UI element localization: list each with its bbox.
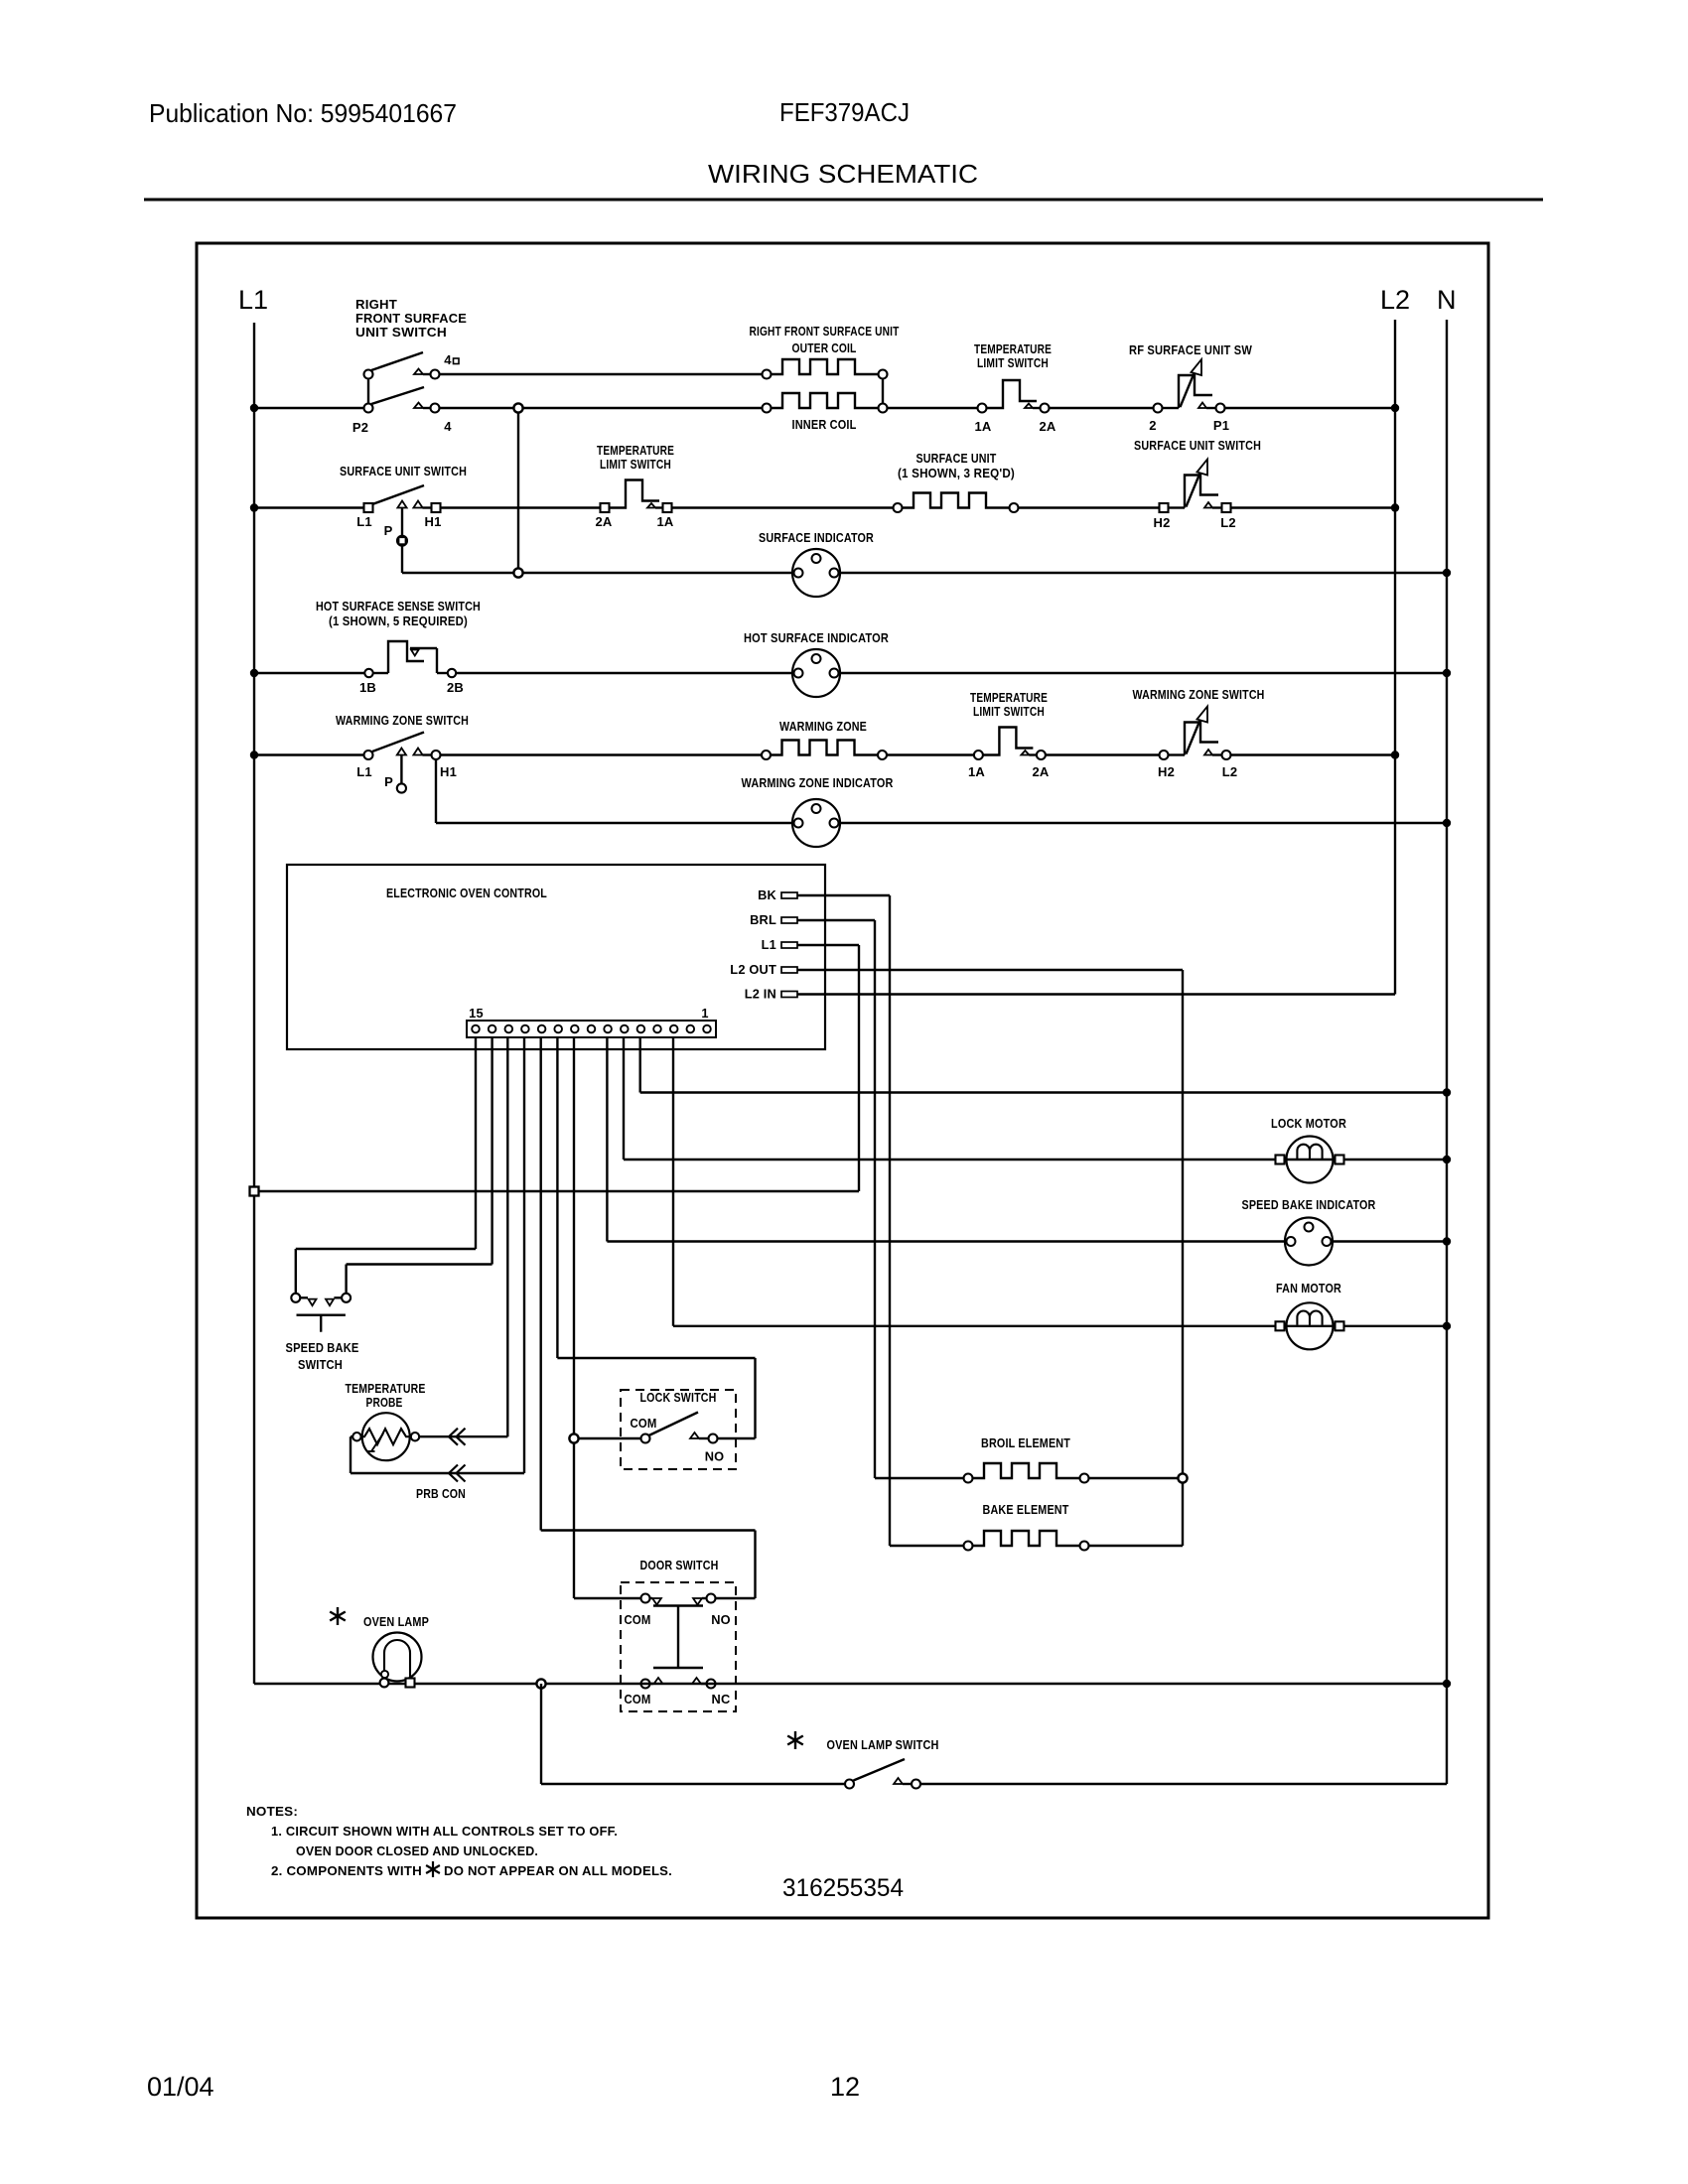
svg-text:WARMING ZONE: WARMING ZONE: [779, 719, 867, 734]
label NO lock: [705, 1449, 725, 1464]
label NO door upper: [711, 1612, 731, 1627]
element inner coil: [763, 393, 888, 413]
wire pin3 to fan motor: [673, 1037, 1276, 1326]
label 2B: [447, 680, 464, 695]
svg-text:1A: 1A: [974, 419, 991, 434]
svg-text:H1: H1: [440, 764, 457, 779]
switch door lower (COM/NC): [641, 1678, 716, 1689]
label warming zone indicator: [742, 775, 894, 790]
wire row-C H1 to 2A: [441, 506, 601, 508]
box door switch (dashed): [621, 1582, 736, 1711]
switch surface unit (L1/P/H1): [364, 485, 441, 546]
wire L1 bus: [253, 323, 255, 1684]
label inner coil: [792, 417, 857, 432]
svg-text:RF SURFACE UNIT SW: RF SURFACE UNIT SW: [1129, 342, 1253, 357]
EOC pin connector strip: [467, 1021, 716, 1037]
svg-text:L2 IN: L2 IN: [745, 987, 776, 1002]
svg-text:(1 SHOWN, 3 REQ'D): (1 SHOWN, 3 REQ'D): [898, 466, 1015, 480]
door switch plunger: [653, 1606, 703, 1669]
label 1B: [359, 680, 376, 695]
wire lock motor to N: [1343, 1159, 1447, 1160]
label 4: [444, 419, 452, 434]
element broil: [964, 1463, 1089, 1483]
label surface indicator: [759, 530, 874, 545]
junction dot N pin5 wire: [1443, 1088, 1451, 1096]
wire EOC L1 net: [797, 945, 859, 1191]
wire row-C L1 to switch: [254, 506, 364, 508]
schematic border frame: [197, 243, 1488, 1918]
wire row-B inner coil to 1A: [888, 407, 978, 409]
svg-text:SPEED BAKE: SPEED BAKE: [286, 1340, 359, 1355]
wire N bus: [1446, 320, 1448, 1784]
svg-text:L2: L2: [1380, 285, 1410, 315]
switch temperature limit (1A/2A) row-F: [974, 728, 1046, 760]
svg-text:L1: L1: [762, 937, 776, 952]
svg-text:P: P: [384, 523, 393, 538]
wire pin13 to temperature probe: [419, 1037, 507, 1436]
svg-text:L2: L2: [1222, 764, 1238, 779]
wire pin12 to probe return: [351, 1037, 524, 1473]
svg-text:DO NOT APPEAR ON ALL MODELS.: DO NOT APPEAR ON ALL MODELS.: [444, 1863, 672, 1878]
wire row-E indicator to N: [838, 672, 1447, 674]
svg-text:15: 15: [469, 1006, 484, 1021]
junction dot N row-G: [1443, 819, 1451, 827]
svg-text:2: 2: [1149, 418, 1156, 433]
label temperature limit switch row-C: [597, 443, 674, 472]
wire BK to bake element: [890, 1545, 964, 1547]
svg-text:1: 1: [701, 1006, 708, 1021]
svg-text:L1: L1: [238, 285, 268, 315]
lamp warming zone indicator: [792, 799, 840, 847]
wire BK net: [797, 895, 890, 1546]
svg-text:4: 4: [444, 419, 452, 434]
svg-text:OVEN DOOR CLOSED AND UNLOCKED.: OVEN DOOR CLOSED AND UNLOCKED.: [296, 1843, 538, 1858]
svg-text:2A: 2A: [1032, 764, 1049, 779]
svg-text:WARMING ZONE SWITCH: WARMING ZONE SWITCH: [1133, 687, 1265, 702]
wire row-C coil to H2: [1019, 506, 1160, 508]
svg-text:COM: COM: [631, 1416, 657, 1431]
label right front surface unit switch: [355, 297, 467, 340]
note 1 line 2: [296, 1843, 538, 1858]
svg-text:NC: NC: [712, 1692, 731, 1706]
wire row-E L1 to 1B: [254, 672, 365, 674]
svg-text:(1 SHOWN, 5 REQUIRED): (1 SHOWN, 5 REQUIRED): [329, 614, 468, 628]
label 1A row-F: [968, 764, 985, 779]
label RF surface unit SW: [1129, 342, 1253, 357]
switch temperature limit (1A/2A) row-B: [978, 380, 1050, 413]
junction oven lamp switch drop: [536, 1679, 545, 1688]
svg-text:316255354: 316255354: [782, 1874, 904, 1902]
lamp speed bake indicator: [1285, 1218, 1333, 1266]
wire row-D indicator to N: [838, 572, 1447, 574]
wire row-F L2 to L2 bus: [1231, 753, 1396, 755]
svg-text:WIRING SCHEMATIC: WIRING SCHEMATIC: [708, 159, 978, 189]
wire row-F L1 to switch: [254, 753, 364, 755]
element surface unit coil: [894, 493, 1019, 513]
svg-text:P2: P2: [352, 420, 368, 435]
svg-text:TEMPERATURE: TEMPERATURE: [970, 690, 1048, 705]
label lock motor: [1271, 1116, 1346, 1131]
svg-text:P: P: [384, 774, 393, 789]
junction dot N oven lamp row: [1443, 1680, 1451, 1688]
svg-text:NOTES:: NOTES:: [246, 1804, 298, 1819]
svg-text:SPEED BAKE INDICATOR: SPEED BAKE INDICATOR: [1242, 1197, 1376, 1212]
wire row-B L1 to P2: [254, 407, 364, 409]
label L1 row-F: [356, 764, 372, 779]
svg-text:ELECTRONIC OVEN CONTROL: ELECTRONIC OVEN CONTROL: [386, 886, 547, 900]
wire pin7 to speed bake indicator: [607, 1037, 1287, 1242]
label COM lock: [631, 1416, 657, 1431]
label 4a: [444, 352, 459, 367]
label P row-F: [384, 774, 393, 789]
junction dot L2 row-F: [1391, 751, 1399, 758]
label 2: [1149, 418, 1156, 433]
label oven lamp: [363, 1614, 429, 1629]
label lock switch: [640, 1390, 717, 1405]
lamp surface indicator: [792, 549, 840, 597]
node L2 label: [1380, 285, 1410, 315]
wire row-C L2 to L2 bus: [1231, 506, 1396, 508]
label hot surface indicator: [744, 630, 889, 645]
element bake: [964, 1531, 1089, 1551]
svg-text:COM: COM: [625, 1612, 651, 1627]
connector PRB CON upper chevrons: [449, 1429, 466, 1445]
svg-text:1A: 1A: [656, 514, 673, 529]
terminal L2 IN: [745, 987, 797, 1002]
node N label: [1437, 285, 1457, 315]
wire drop row-B to row-D: [517, 408, 519, 573]
svg-text:N: N: [1437, 285, 1457, 315]
label bake element: [983, 1502, 1069, 1517]
svg-text:SURFACE UNIT SWITCH: SURFACE UNIT SWITCH: [340, 464, 467, 478]
svg-text:2. COMPONENTS WITH: 2. COMPONENTS WITH: [271, 1863, 422, 1878]
svg-text:H1: H1: [424, 514, 441, 529]
label PRB CON: [416, 1486, 466, 1501]
terminal BRL: [750, 912, 797, 927]
text: model number: [779, 97, 910, 127]
wire pin11 to door switch NO: [541, 1037, 756, 1598]
svg-text:Publication No: 5995401667: Publication No: 5995401667: [149, 98, 457, 128]
wire speed bake indicator to N: [1331, 1240, 1447, 1242]
junction broil L2OUT: [1178, 1473, 1187, 1482]
svg-text:NO: NO: [705, 1449, 725, 1464]
wire coil right terminals link: [882, 379, 884, 404]
svg-text:TEMPERATURE: TEMPERATURE: [597, 443, 674, 458]
label pin 15: [469, 1006, 484, 1021]
junction L1 x1200: [250, 1187, 259, 1196]
svg-text:NO: NO: [711, 1612, 731, 1627]
svg-text:OVEN LAMP: OVEN LAMP: [363, 1614, 429, 1629]
label P1: [1213, 418, 1229, 433]
switch warming zone right (H2/L2): [1160, 707, 1231, 760]
terminal L2 OUT: [730, 962, 797, 977]
note 2: [271, 1863, 672, 1878]
label surface unit switch left: [340, 464, 467, 478]
element outer coil: [763, 359, 888, 379]
switch hot surface sense (1B/2B): [364, 641, 456, 677]
junction dot L2 row-B: [1391, 404, 1399, 412]
svg-text:P1: P1: [1213, 418, 1229, 433]
wire L1 bus to EOC L1: [254, 1190, 859, 1192]
label H1 row-F: [440, 764, 457, 779]
wire pin15 to speed bake switch: [296, 1037, 476, 1294]
label speed bake switch: [286, 1340, 359, 1372]
label 2A row-B: [1039, 419, 1055, 434]
svg-text:LIMIT SWITCH: LIMIT SWITCH: [973, 704, 1045, 719]
resistor temperature probe: [352, 1413, 419, 1460]
label warming zone switch right: [1133, 687, 1265, 702]
svg-text:H2: H2: [1153, 515, 1170, 530]
junction dot N fan motor: [1443, 1322, 1451, 1330]
svg-text:2A: 2A: [1039, 419, 1055, 434]
terminal BK: [758, 887, 797, 902]
asterisk oven lamp: [330, 1607, 346, 1625]
switch door upper (COM/NO): [641, 1594, 716, 1605]
switch speed bake: [291, 1294, 351, 1332]
svg-text:L1: L1: [356, 514, 372, 529]
text: title WIRING SCHEMATIC: [708, 159, 978, 189]
switch warming zone (L1/P/H1): [364, 733, 441, 793]
svg-text:DOOR SWITCH: DOOR SWITCH: [640, 1558, 719, 1572]
wire row-B P1 to L2 bus: [1225, 407, 1396, 409]
wire probe left drop: [351, 1436, 352, 1473]
text part number 316255354: [782, 1874, 904, 1902]
svg-text:TEMPERATURE: TEMPERATURE: [974, 341, 1052, 356]
label L2 row-F: [1222, 764, 1238, 779]
label warming zone element: [779, 719, 867, 734]
label surface unit: [898, 451, 1015, 480]
label door switch: [640, 1558, 719, 1572]
junction dot N lock motor: [1443, 1156, 1451, 1163]
wire P drop to indicator row: [402, 546, 794, 574]
label temperature limit switch row-F: [970, 690, 1048, 719]
label broil element: [981, 1435, 1070, 1450]
wire pin6 to lock motor: [624, 1037, 1276, 1160]
svg-text:BROIL ELEMENT: BROIL ELEMENT: [981, 1435, 1070, 1450]
label pin 1: [701, 1006, 708, 1021]
svg-text:RIGHT: RIGHT: [355, 297, 397, 312]
wire BRL to broil element: [875, 1477, 964, 1479]
motor lock motor: [1276, 1137, 1344, 1183]
wire pin5 to N: [640, 1037, 1447, 1093]
svg-text:LIMIT SWITCH: LIMIT SWITCH: [977, 355, 1049, 370]
svg-text:BK: BK: [758, 887, 776, 902]
label fan motor: [1276, 1281, 1341, 1296]
wire row-B contact 4 to inner coil: [440, 407, 763, 409]
text page 12: [830, 2072, 860, 2102]
svg-text:UNIT SWITCH: UNIT SWITCH: [355, 325, 447, 340]
svg-text:LOCK SWITCH: LOCK SWITCH: [640, 1390, 717, 1405]
svg-text:BRL: BRL: [750, 912, 776, 927]
svg-text:LOCK MOTOR: LOCK MOTOR: [1271, 1116, 1346, 1131]
switch lock (COM/NO): [641, 1413, 718, 1443]
label 2A row-C: [595, 514, 612, 529]
label outer coil: [792, 341, 857, 355]
junction dot N row-E: [1443, 669, 1451, 677]
svg-text:SWITCH: SWITCH: [298, 1357, 343, 1372]
svg-text:WARMING ZONE SWITCH: WARMING ZONE SWITCH: [336, 713, 469, 728]
switch RF surface unit (2/P1): [1154, 359, 1225, 413]
svg-text:INNER COIL: INNER COIL: [792, 417, 857, 432]
label P2: [352, 420, 368, 435]
wire row-F coil to 1A: [887, 753, 973, 755]
wire L2 bus: [1394, 320, 1396, 995]
text date 01/04: [147, 2072, 214, 2102]
wire pin10 to lock switch NO: [557, 1037, 755, 1438]
junction dot L1 row-F: [250, 751, 258, 758]
label 2A row-F: [1032, 764, 1049, 779]
label right front surface unit: [750, 324, 900, 339]
label P row-C: [384, 523, 393, 538]
wire pin9 to lock switch COM: [574, 1437, 640, 1439]
svg-text:PRB CON: PRB CON: [416, 1486, 466, 1501]
svg-text:1. CIRCUIT SHOWN WITH ALL CO: 1. CIRCUIT SHOWN WITH ALL CONTROLS SET T…: [271, 1824, 618, 1839]
label temperature probe: [346, 1381, 426, 1410]
terminal L1: [762, 937, 797, 952]
junction dot L2 row-C: [1391, 503, 1399, 511]
box lock switch (dashed): [621, 1390, 736, 1469]
svg-text:2A: 2A: [595, 514, 612, 529]
lamp hot surface indicator: [792, 649, 840, 697]
junction dot N speed bake indicator: [1443, 1237, 1451, 1245]
label H2 row-F: [1158, 764, 1175, 779]
svg-text:LIMIT SWITCH: LIMIT SWITCH: [600, 457, 671, 472]
wire row-F 2A to H2: [1046, 753, 1160, 755]
wire broil element to L2OUT net: [1089, 1477, 1184, 1479]
svg-text:4: 4: [444, 352, 452, 367]
wire oven lamp switch to N: [920, 1783, 1447, 1785]
svg-text:H2: H2: [1158, 764, 1175, 779]
asterisk oven lamp switch: [787, 1731, 803, 1749]
switch surface unit right (H2/L2): [1160, 460, 1231, 513]
svg-text:L1: L1: [356, 764, 372, 779]
svg-text:FAN MOTOR: FAN MOTOR: [1276, 1281, 1341, 1296]
switch temperature limit (2A/1A) row-C: [601, 480, 672, 513]
svg-text:RIGHT FRONT SURFACE UNIT: RIGHT FRONT SURFACE UNIT: [750, 324, 900, 339]
wire oven lamp row: [254, 1683, 1447, 1685]
wire pin14 to speed bake switch: [347, 1037, 492, 1294]
asterisk note 2: [426, 1861, 440, 1877]
label 1A row-C: [656, 514, 673, 529]
svg-text:HOT SURFACE SENSE SWITCH: HOT SURFACE SENSE SWITCH: [316, 599, 481, 614]
svg-text:FRONT SURFACE: FRONT SURFACE: [355, 311, 467, 326]
junction dot L1 row-B: [250, 404, 258, 412]
svg-text:L2: L2: [1220, 515, 1236, 530]
label electronic oven control: [386, 886, 547, 900]
wire BRL net: [797, 920, 875, 1478]
wire bake element to L2OUT net: [1089, 1545, 1184, 1547]
label speed bake indicator: [1242, 1197, 1376, 1212]
svg-text:1A: 1A: [968, 764, 985, 779]
label L2 row-C: [1220, 515, 1236, 530]
label H1 row-C: [424, 514, 441, 529]
svg-text:TEMPERATURE: TEMPERATURE: [346, 1381, 426, 1396]
label COM door lower: [625, 1692, 651, 1706]
wire row-G indicator to N: [838, 822, 1447, 824]
wire lock NO to pin10 riser: [718, 1437, 756, 1439]
wire oven lamp switch feed: [541, 1684, 845, 1784]
wire H1 drop to row-G: [436, 759, 794, 824]
svg-text:FEF379ACJ: FEF379ACJ: [779, 97, 910, 127]
wire row-C 1A to surface unit: [672, 506, 894, 508]
junction dot L1 row-E: [250, 669, 258, 677]
wire row-F H1 to warming zone: [441, 753, 763, 755]
svg-text:OUTER COIL: OUTER COIL: [792, 341, 857, 355]
svg-text:WARMING ZONE INDICATOR: WARMING ZONE INDICATOR: [742, 775, 894, 790]
label H2 row-C: [1153, 515, 1170, 530]
svg-text:SURFACE UNIT: SURFACE UNIT: [916, 451, 997, 466]
svg-text:12: 12: [830, 2072, 860, 2102]
label NOTES: [246, 1804, 298, 1819]
wire L2 IN net: [797, 993, 1395, 995]
motor fan motor: [1276, 1302, 1344, 1349]
text: publication number: [149, 98, 457, 128]
wire fan motor to N: [1343, 1325, 1447, 1327]
box electronic oven control: [287, 865, 825, 1049]
node L1 label: [238, 285, 268, 315]
wire row-E 2B to indicator: [456, 672, 794, 674]
label COM door upper: [625, 1612, 651, 1627]
svg-text:2B: 2B: [447, 680, 464, 695]
switch oven lamp: [845, 1759, 920, 1789]
label hot surface sense switch: [316, 599, 481, 628]
junction row-B x522: [513, 403, 522, 412]
svg-text:01/04: 01/04: [147, 2072, 214, 2102]
label warming zone switch left: [336, 713, 469, 728]
junction dot L1 row-C: [250, 503, 258, 511]
lamp oven lamp: [373, 1633, 422, 1688]
label NC door lower: [712, 1692, 731, 1706]
label oven lamp switch: [827, 1737, 939, 1752]
svg-text:PROBE: PROBE: [366, 1395, 403, 1410]
svg-text:BAKE ELEMENT: BAKE ELEMENT: [983, 1502, 1069, 1517]
svg-text:SURFACE INDICATOR: SURFACE INDICATOR: [759, 530, 874, 545]
svg-text:HOT SURFACE INDICATOR: HOT SURFACE INDICATOR: [744, 630, 889, 645]
label temperature limit switch row-B: [974, 341, 1052, 370]
header rule line: [144, 199, 1543, 202]
svg-text:L2 OUT: L2 OUT: [730, 962, 776, 977]
svg-text:COM: COM: [625, 1692, 651, 1706]
junction row-D x522: [513, 568, 522, 577]
svg-text:SURFACE UNIT SWITCH: SURFACE UNIT SWITCH: [1134, 438, 1261, 453]
wire row-B 2A to terminal 2: [1050, 407, 1154, 409]
label surface unit switch right: [1134, 438, 1261, 453]
label 1A row-B: [974, 419, 991, 434]
connector PRB CON lower chevrons: [449, 1465, 466, 1482]
wire L2 OUT net: [797, 970, 1183, 1546]
junction dot N row-D: [1443, 569, 1451, 577]
element warming zone coil: [762, 741, 887, 760]
note 1 line 1: [271, 1824, 618, 1839]
wire pin9 to door switch COM: [574, 1037, 640, 1598]
junction pin9 lock switch: [569, 1433, 578, 1442]
wire row-A contact 4a to outer coil: [440, 373, 763, 375]
label L1 row-C: [356, 514, 372, 529]
svg-text:OVEN LAMP SWITCH: OVEN LAMP SWITCH: [827, 1737, 939, 1752]
switch SW1 right front surface unit (P2): [364, 352, 440, 413]
svg-text:1B: 1B: [359, 680, 376, 695]
